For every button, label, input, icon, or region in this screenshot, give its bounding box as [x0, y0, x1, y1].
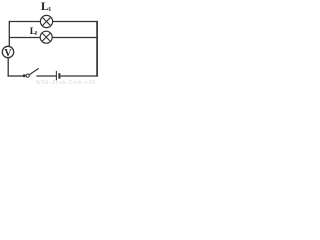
switch junction dot [23, 74, 26, 77]
wire bottom left horizontal [8, 75, 24, 77]
wire below voltmeter [7, 58, 9, 77]
wire right vertical [96, 21, 98, 77]
wire L2 branch right [52, 37, 97, 39]
wire top left horizontal [9, 21, 41, 23]
svg-text:V: V [4, 48, 12, 59]
wire L2 branch left [9, 37, 40, 39]
battery long plate [55, 71, 57, 80]
wire left vertical [8, 21, 10, 47]
battery short plate [58, 73, 60, 78]
lamp L1 [40, 15, 52, 27]
lamp L2 [40, 31, 52, 43]
switch pivot circle [26, 74, 29, 77]
svg-text:W05-Zxxk.Com-c05: W05-Zxxk.Com-c05 [36, 80, 96, 86]
wire switch to battery [36, 75, 56, 77]
wire top right horizontal [52, 21, 97, 23]
voltmeter V [2, 46, 13, 59]
switch lever [29, 68, 39, 74]
wire battery to right [61, 75, 98, 77]
